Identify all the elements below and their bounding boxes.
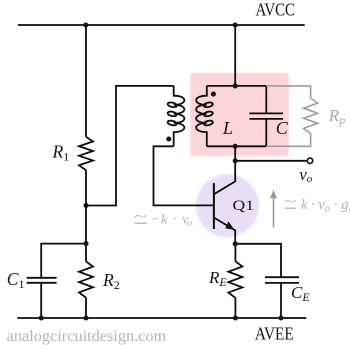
wire vo output — [235, 160, 307, 162]
transistor Q1 emitter arrowhead — [225, 221, 234, 230]
capacitor C1 — [27, 277, 57, 279]
gray feedback label: ~= -k . vo — [134, 209, 192, 229]
wire tank to vo node — [234, 146, 236, 161]
svg-text:C: C — [276, 118, 289, 138]
wire AVCC top rail — [18, 24, 305, 26]
capacitor C vertical leads — [265, 86, 267, 113]
node dot CE/AVEE — [278, 315, 283, 320]
node dot RE/AVEE — [233, 315, 238, 320]
node dot vo — [233, 158, 238, 163]
svg-text:L: L — [222, 118, 233, 138]
capacitor C plates — [249, 112, 283, 114]
wire AVCC to R1 top — [85, 25, 87, 137]
svg-text:AVCC: AVCC — [256, 0, 296, 19]
node dot R2/AVEE — [83, 315, 88, 320]
gray current arrow — [270, 190, 277, 228]
wire tank top — [207, 85, 266, 87]
node dot emitter — [233, 241, 238, 246]
transistor Q1 base bar — [213, 183, 215, 229]
wire tank bottom — [207, 145, 266, 147]
svg-text:o: o — [187, 218, 192, 229]
inductor primary winding (left coil) — [174, 86, 185, 146]
wire RE to AVEE — [234, 298, 236, 318]
wire C1 to AVEE — [40, 284, 42, 318]
wire AVCC to tank top — [234, 25, 236, 86]
inductor L (right coil) — [196, 86, 207, 146]
node dot tank bottom — [233, 144, 238, 149]
resistor RE — [228, 261, 242, 298]
node dot rail/tank — [233, 22, 238, 27]
transistor highlight circle — [196, 174, 259, 237]
wire emitter node to CE — [235, 244, 281, 277]
gray current label: ~= k . vo . gm — [284, 194, 350, 214]
wire R1 bottom to node — [85, 170, 87, 261]
node dot base divider — [83, 203, 88, 208]
svg-text:Q1: Q1 — [233, 197, 255, 214]
resistor Rp (gray, parallel loss) — [266, 86, 317, 146]
resistor R1 — [79, 137, 93, 170]
wire R2 bottom to AVEE — [85, 298, 87, 318]
svg-text:−k · v: −k · v — [151, 213, 190, 228]
node dot rail/R1 — [83, 22, 88, 27]
node dot C1/AVEE — [39, 315, 44, 320]
wire node to C1 — [41, 244, 86, 277]
svg-text:AVEE: AVEE — [255, 324, 294, 344]
wire primary bottom to base — [154, 146, 214, 205]
svg-text:analogcircuitdesign.com: analogcircuitdesign.com — [7, 328, 167, 345]
phase dot L — [211, 92, 216, 97]
wire node to feedback riser — [86, 86, 174, 206]
wire CE to AVEE — [280, 284, 282, 318]
wire emitter to RE — [234, 244, 236, 261]
node dot tank top — [233, 83, 238, 88]
transistor Q1 emitter — [214, 218, 235, 244]
terminal vo — [307, 158, 312, 163]
capacitor CE plates — [265, 276, 299, 278]
phase dot primary — [166, 136, 171, 141]
resistor R2 — [79, 261, 93, 297]
transistor Q1 collector — [214, 161, 235, 194]
wire AVEE bottom rail — [17, 317, 306, 319]
LC tank highlight box — [190, 73, 289, 156]
node dot C1 tap — [83, 241, 88, 246]
